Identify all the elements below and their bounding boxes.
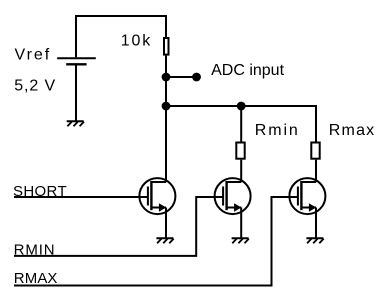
junction dot at resistor / ADC stub xyxy=(162,73,171,82)
ground below Q3 xyxy=(306,238,323,243)
ground below Q2 xyxy=(232,238,249,243)
wire SHORT net to Q1 gate xyxy=(14,196,148,198)
wire Rmin resistor to Q2 drain xyxy=(240,160,242,183)
wire Rmax resistor to Q3 drain xyxy=(315,160,317,183)
svg-text:ADC input: ADC input xyxy=(211,62,284,79)
svg-text:Rmax: Rmax xyxy=(329,122,376,139)
svg-text:Vref: Vref xyxy=(15,47,52,64)
transistor Q1 SHORT xyxy=(139,178,175,214)
ground below Q1 xyxy=(156,238,173,243)
wire bus to Rmin and Rmax branches xyxy=(166,106,316,142)
svg-text:RMAX: RMAX xyxy=(14,270,58,287)
wire Q1 source to ground xyxy=(165,208,167,239)
svg-text:SHORT: SHORT xyxy=(13,183,67,200)
resistor 10k xyxy=(164,38,169,55)
wire Q3 source to ground xyxy=(315,208,317,239)
svg-text:Rmin: Rmin xyxy=(255,122,300,139)
junction dot Rmin branch xyxy=(237,102,246,111)
svg-text:RMIN: RMIN xyxy=(14,242,56,259)
wire RMIN net to Q2 gate xyxy=(14,197,223,256)
svg-text:10k: 10k xyxy=(121,32,152,49)
wire ADC input stub xyxy=(166,76,197,78)
wire Q2 source to ground xyxy=(240,208,242,239)
junction dot main vertical / bus xyxy=(162,102,171,111)
battery Vref xyxy=(57,58,96,64)
wire Rmin branch top xyxy=(240,106,242,142)
wire main vertical from resistor to Q1 drain xyxy=(165,56,167,183)
resistor Rmax xyxy=(311,143,319,159)
transistor Q2 RMIN xyxy=(215,178,251,214)
node ADC input terminal dot xyxy=(192,73,201,82)
resistor Rmin xyxy=(236,143,244,159)
wire top bus from battery to resistor xyxy=(76,16,166,57)
wire RMAX net to Q3 gate xyxy=(14,197,298,286)
ground below battery xyxy=(67,121,84,126)
wire battery negative lead xyxy=(75,64,77,121)
transistor Q3 RMAX xyxy=(289,178,325,214)
svg-text:5,2 V: 5,2 V xyxy=(14,77,56,94)
